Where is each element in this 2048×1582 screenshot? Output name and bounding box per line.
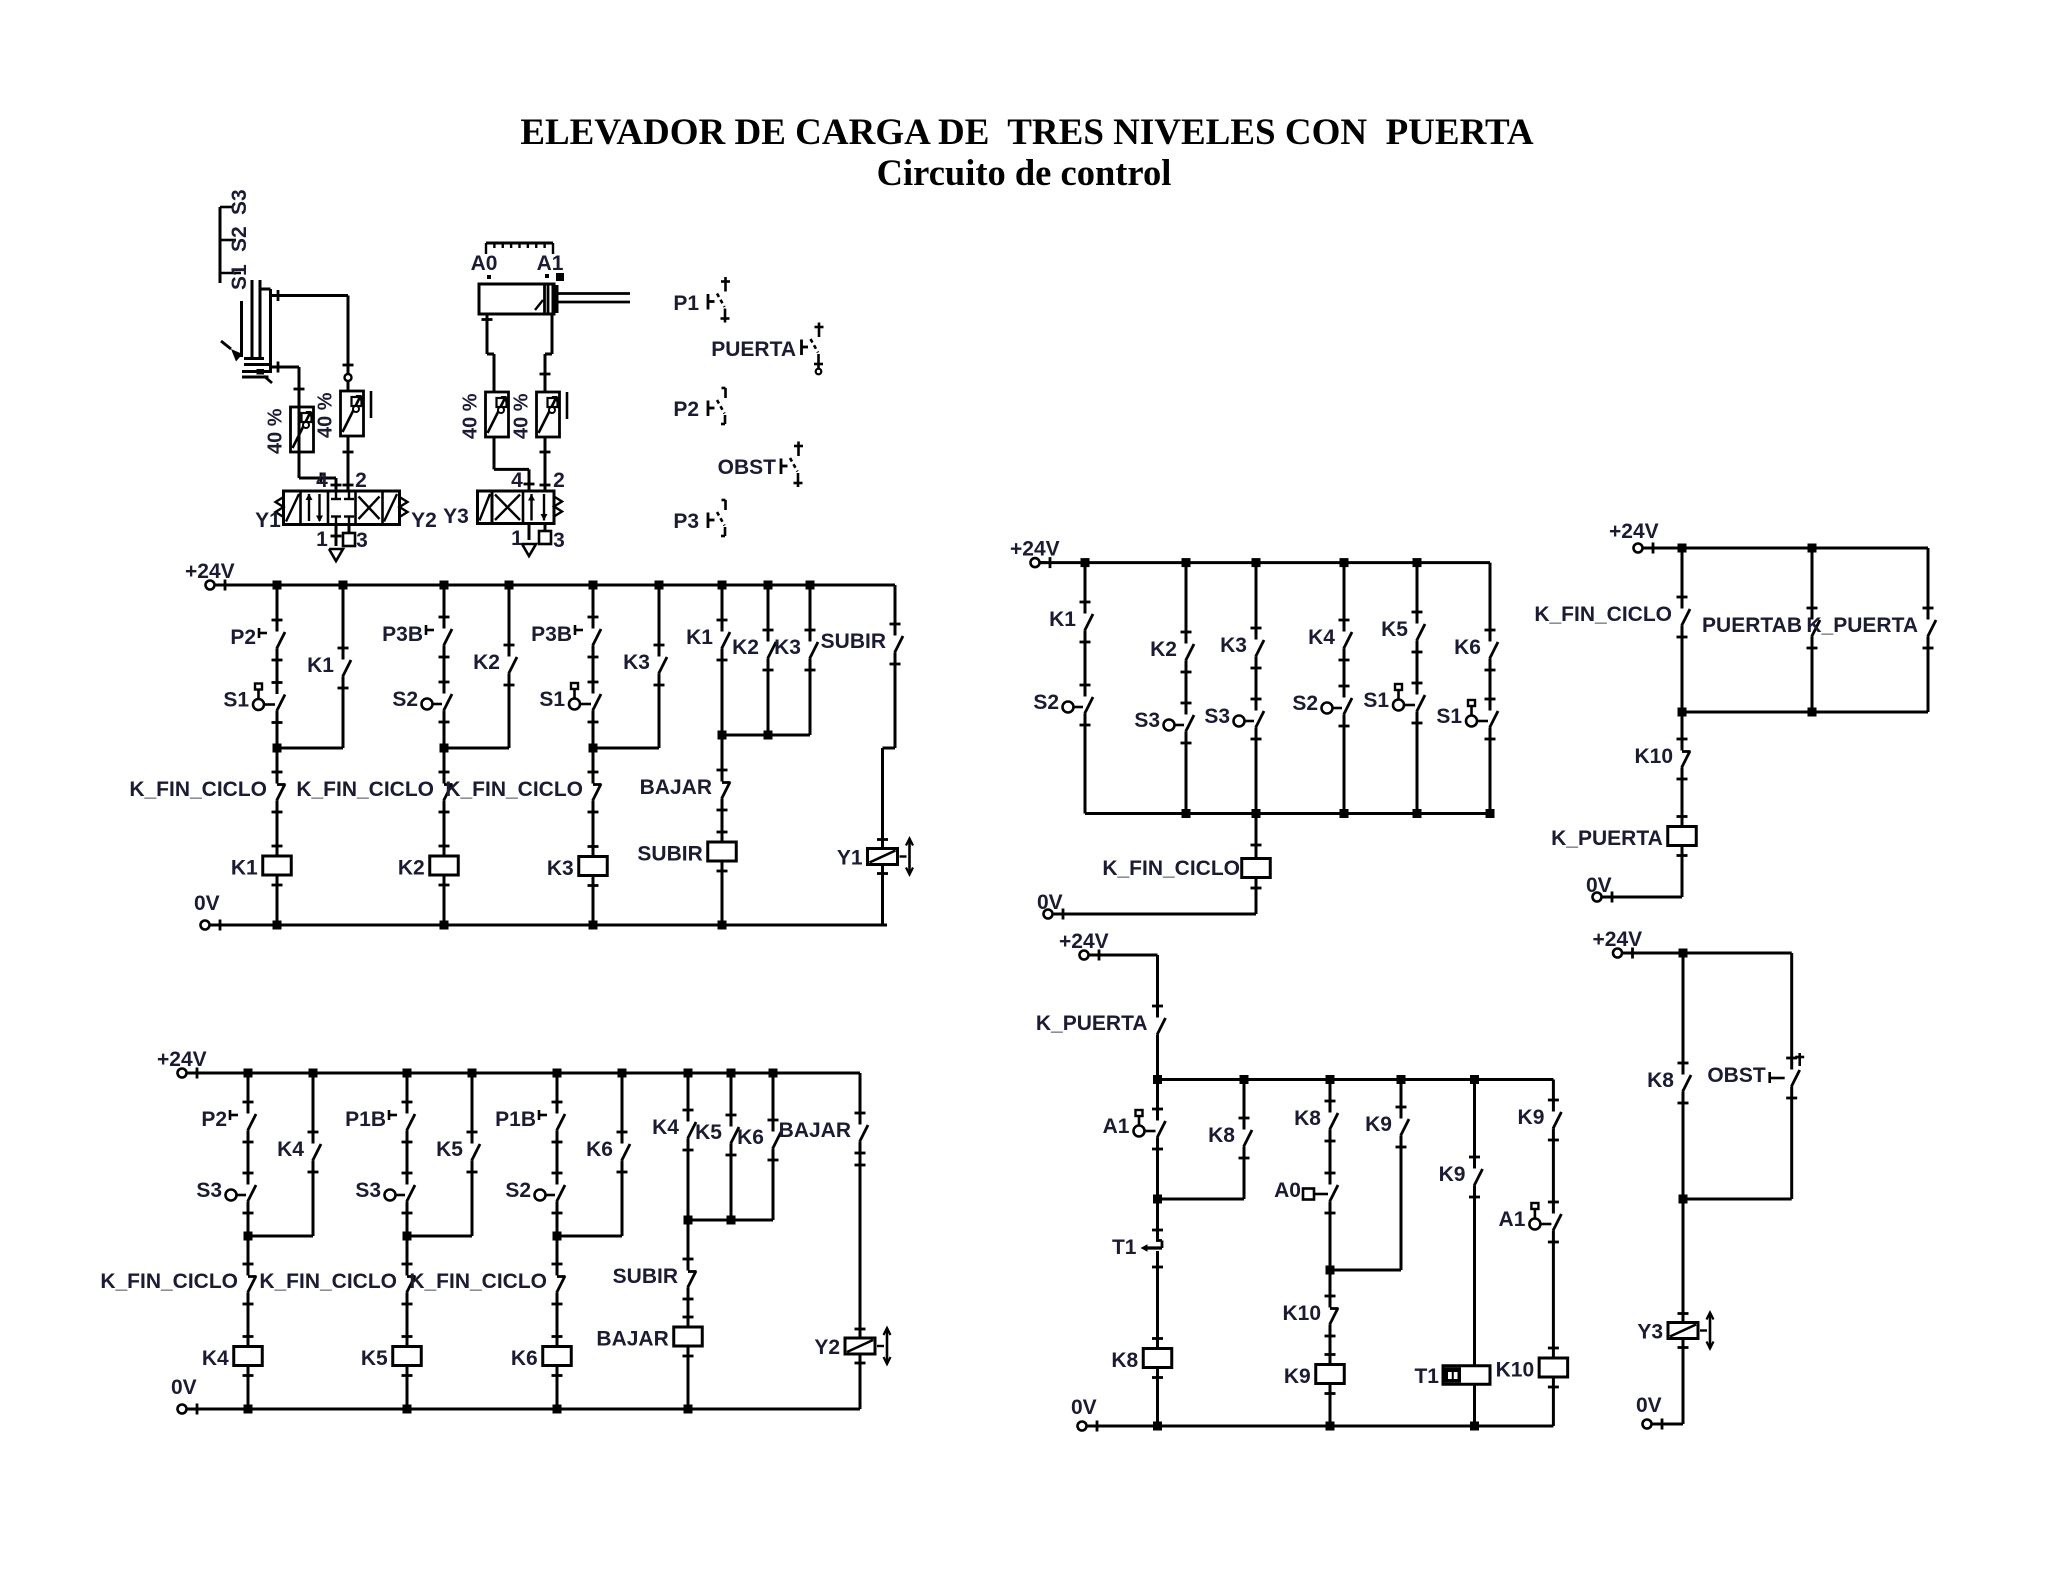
- branch wire (rung1): [247, 1073, 250, 1114]
- branch wire (l6 OBST): [1790, 953, 1793, 1070]
- svg-text:2: 2: [553, 469, 565, 492]
- branch wire (rung2 parallel K5): [471, 1073, 474, 1144]
- junction: [1470, 1075, 1479, 1084]
- junction: [1326, 1075, 1335, 1084]
- junction: [1153, 1422, 1162, 1431]
- svg-text:K_FIN_CICLO: K_FIN_CICLO: [1102, 857, 1240, 880]
- wire junction: [688, 1219, 773, 1222]
- svg-text:S1: S1: [228, 264, 251, 290]
- flow control valve 40% (Y3 port 4): [486, 392, 509, 437]
- contact K_FIN_CICLO: [1682, 609, 1690, 626]
- pipe cylinder A port 4 to valve Y3: [486, 314, 489, 354]
- branch wire (l5 K_PUERTA contact): [1156, 955, 1159, 1018]
- contact K2: [768, 642, 776, 659]
- svg-text:BAJAR: BAJAR: [640, 776, 712, 799]
- branch wire (l5 parallel K8): [1243, 1080, 1246, 1130]
- svg-text:K5: K5: [436, 1138, 463, 1161]
- svg-text:K6: K6: [586, 1138, 613, 1161]
- coil K8: [1152, 1337, 1163, 1340]
- svg-text:S2: S2: [1033, 691, 1059, 714]
- wire junction: [722, 734, 810, 737]
- svg-text:K_PUERTA: K_PUERTA: [1806, 614, 1918, 637]
- svg-text:40 %: 40 %: [460, 393, 482, 439]
- valve Y1 port 1 exhaust: [335, 525, 338, 547]
- contact S1: [1417, 695, 1425, 712]
- svg-text:T1: T1: [1414, 1365, 1439, 1388]
- branch wire (rung5 Y2): [859, 1073, 862, 1125]
- junction: [1678, 544, 1687, 553]
- valve Y3 port 3 silencer: [544, 524, 547, 532]
- coil K9: [1325, 1353, 1336, 1356]
- branch wire (l4 main): [1681, 548, 1684, 609]
- branch wire (l3 K1): [1084, 563, 1087, 614]
- junction: [1413, 809, 1422, 818]
- svg-text:40 %: 40 %: [315, 392, 337, 438]
- svg-text:K_PUERTA: K_PUERTA: [1036, 1012, 1148, 1035]
- junction: [806, 581, 815, 590]
- contact S1: [1490, 711, 1498, 728]
- coil K2: [439, 845, 450, 848]
- contact S2: [444, 694, 452, 711]
- svg-text:K8: K8: [1647, 1069, 1674, 1092]
- contact K_PUERTA: [1928, 620, 1936, 637]
- junction: [589, 581, 598, 590]
- svg-text:K9: K9: [1439, 1163, 1466, 1186]
- contact BAJAR: [860, 1125, 868, 1142]
- svg-text:K6: K6: [1454, 636, 1481, 659]
- svg-text:K1: K1: [307, 654, 334, 677]
- junction: [403, 1069, 412, 1078]
- branch wire (rung3 parallel K6): [621, 1073, 624, 1144]
- svg-text:K9: K9: [1365, 1113, 1392, 1136]
- branch wire (l5 rung K10): [1552, 1080, 1555, 1112]
- contact OBST: [1791, 1070, 1799, 1087]
- junction: [1252, 809, 1261, 818]
- contact K1: [343, 660, 351, 677]
- branch wire (rung4 parallel K3): [809, 585, 812, 642]
- svg-text:S1: S1: [539, 688, 565, 711]
- contact K8: [1330, 1113, 1338, 1130]
- valve Y3 port 1 exhaust: [528, 524, 531, 541]
- junction: [273, 581, 282, 590]
- svg-text:40 %: 40 %: [265, 408, 287, 454]
- svg-text:0V: 0V: [194, 892, 220, 915]
- junction: [309, 1069, 318, 1078]
- svg-text:OBST: OBST: [1707, 1064, 1766, 1087]
- contact K3: [810, 642, 818, 659]
- svg-text:PUERTAB: PUERTAB: [1702, 614, 1802, 637]
- svg-text:4: 4: [316, 469, 328, 492]
- contact K8: [1244, 1130, 1252, 1147]
- svg-text:S1: S1: [223, 689, 249, 712]
- wire to Y1 port 2: [347, 436, 350, 491]
- svg-text:K2: K2: [473, 651, 500, 674]
- branch wire (l5 rung K8): [1156, 1080, 1159, 1121]
- contact SUBIR: [688, 1271, 696, 1288]
- svg-text:S2: S2: [392, 688, 418, 711]
- svg-text:P2: P2: [673, 398, 699, 421]
- coil K4: [243, 1335, 254, 1338]
- branch wire (l5 parallel K9): [1400, 1080, 1403, 1119]
- svg-text:S3: S3: [196, 1179, 222, 1202]
- coil K1: [272, 845, 283, 848]
- horizontal cylinder A: [479, 284, 554, 314]
- svg-text:A0: A0: [471, 252, 498, 275]
- svg-text:K10: K10: [1634, 745, 1673, 768]
- branch wire (rung1 parallel K4): [312, 1073, 315, 1144]
- junction: [244, 1405, 253, 1414]
- solenoid coil Y3: [1678, 1312, 1689, 1315]
- svg-text:K_PUERTA: K_PUERTA: [1551, 827, 1663, 850]
- svg-text:S2: S2: [228, 226, 251, 252]
- svg-text:A1: A1: [1499, 1208, 1526, 1231]
- svg-text:0V: 0V: [171, 1376, 197, 1399]
- contact K1: [722, 632, 730, 649]
- branch wire (l3 K6): [1489, 563, 1492, 642]
- svg-text:K5: K5: [361, 1347, 388, 1370]
- svg-text:K4: K4: [202, 1347, 229, 1370]
- valve Y1 port 3 silencer: [348, 525, 351, 534]
- branch wire (rung4 parallel K6): [772, 1073, 775, 1132]
- branch wire (l5 rung T1): [1473, 1080, 1476, 1169]
- svg-text:K10: K10: [1282, 1302, 1321, 1325]
- svg-text:A1: A1: [537, 252, 564, 275]
- junction: [718, 921, 727, 930]
- svg-text:K8: K8: [1294, 1107, 1321, 1130]
- coil K5: [402, 1335, 413, 1338]
- branch wire (l3 K2): [1185, 563, 1188, 644]
- contact K4: [688, 1122, 696, 1139]
- junction: [1679, 949, 1688, 958]
- junction: [1182, 809, 1191, 818]
- svg-text:K3: K3: [774, 636, 801, 659]
- svg-text:Y2: Y2: [814, 1336, 840, 1359]
- bus wire: [1158, 1078, 1554, 1081]
- contact K10: [1330, 1308, 1338, 1325]
- contact K6: [622, 1144, 630, 1161]
- svg-text:P3: P3: [673, 510, 699, 533]
- svg-text:SUBIR: SUBIR: [613, 1265, 678, 1288]
- contact K6: [1490, 642, 1498, 659]
- svg-text:3: 3: [356, 529, 368, 552]
- flow control valve 40% (Y1 port 2): [341, 391, 364, 436]
- junction: [273, 921, 282, 930]
- svg-text:0V: 0V: [1071, 1396, 1097, 1419]
- contact K5: [1417, 624, 1425, 641]
- pipe cylinder A port 2 to valve Y3: [551, 314, 554, 354]
- contact A1: [1553, 1214, 1561, 1231]
- bus wire: [1085, 812, 1490, 815]
- svg-text:1: 1: [316, 528, 328, 551]
- svg-text:K8: K8: [1208, 1124, 1235, 1147]
- svg-text:K1: K1: [686, 626, 713, 649]
- branch wire (l5 rung K9): [1329, 1080, 1332, 1113]
- branch wire (l4 K_PUERTA contact): [1927, 548, 1930, 620]
- contact K4: [1344, 632, 1352, 649]
- junction: [339, 581, 348, 590]
- svg-text:K10: K10: [1496, 1359, 1535, 1382]
- svg-text:K9: K9: [1518, 1106, 1545, 1129]
- contact S1: [593, 694, 601, 711]
- branch wire (rung2 parallel K2): [508, 585, 511, 657]
- junction: [553, 1069, 562, 1078]
- svg-text:S3: S3: [228, 189, 251, 215]
- junction: [1470, 1422, 1479, 1431]
- contact P2: [248, 1114, 256, 1131]
- svg-text:ELEVADOR DE CARGA DE TRES NIV: ELEVADOR DE CARGA DE TRES NIVELES CON PU…: [520, 112, 1534, 153]
- junction: [1153, 1075, 1162, 1084]
- branch wire (rung2): [406, 1073, 409, 1114]
- svg-text:S3: S3: [1134, 709, 1160, 732]
- junction: [718, 581, 727, 590]
- svg-text:S2: S2: [1292, 692, 1318, 715]
- svg-text:Circuito de control: Circuito de control: [877, 152, 1172, 193]
- contact K10: [1682, 751, 1690, 768]
- svg-text:K4: K4: [277, 1138, 304, 1161]
- branch wire (rung5 Y1): [894, 585, 897, 636]
- timer contact T1: [1152, 1229, 1163, 1232]
- svg-text:K_FIN_CICLO: K_FIN_CICLO: [259, 1270, 397, 1293]
- svg-text:A0: A0: [1274, 1179, 1301, 1202]
- junction: [1240, 1075, 1249, 1084]
- svg-text:K_FIN_CICLO: K_FIN_CICLO: [445, 778, 583, 801]
- coil K3: [588, 845, 599, 848]
- contact P1B: [407, 1114, 415, 1131]
- svg-text:P1B: P1B: [345, 1108, 386, 1131]
- junction: [1413, 558, 1422, 567]
- position scale A0 A1: [486, 242, 553, 245]
- junction: [468, 1069, 477, 1078]
- coil K_PUERTA: [1677, 815, 1688, 818]
- coil K_FIN_CICLO: [1242, 859, 1271, 878]
- svg-text:K3: K3: [1220, 634, 1247, 657]
- svg-text:BAJAR: BAJAR: [779, 1119, 851, 1142]
- svg-text:K_FIN_CICLO: K_FIN_CICLO: [1534, 603, 1672, 626]
- contact K8: [1683, 1075, 1691, 1092]
- contact P1B: [557, 1114, 565, 1131]
- contact S2: [1085, 697, 1093, 714]
- vertical lift cylinder: [251, 280, 254, 358]
- contact PUERTAB: [1812, 620, 1820, 637]
- svg-text:S3: S3: [1204, 705, 1230, 728]
- wire to Y3 port 4: [493, 437, 496, 469]
- contact SUBIR: [895, 636, 903, 653]
- svg-text:P1: P1: [673, 292, 699, 315]
- junction: [1397, 1075, 1406, 1084]
- svg-text:K5: K5: [1381, 618, 1408, 641]
- contact K4: [313, 1144, 321, 1161]
- svg-text:K9: K9: [1284, 1365, 1311, 1388]
- directional valve Y1/Y2: [284, 491, 400, 525]
- svg-text:2: 2: [355, 469, 367, 492]
- contact K3: [1256, 640, 1264, 657]
- junction: [1182, 558, 1191, 567]
- svg-text:K_FIN_CICLO: K_FIN_CICLO: [129, 778, 267, 801]
- contact S2: [557, 1185, 565, 1202]
- wire to Y1 port 4: [298, 452, 301, 478]
- timer coil T1: [1443, 1366, 1490, 1385]
- contact K9: [1401, 1119, 1409, 1136]
- branch wire (rung3 parallel K3): [658, 585, 661, 657]
- svg-text:A1: A1: [1103, 1115, 1130, 1138]
- solenoid coil Y2: [855, 1328, 866, 1331]
- svg-text:T1: T1: [1112, 1236, 1137, 1259]
- junction: [727, 1069, 736, 1078]
- svg-text:K4: K4: [1308, 626, 1335, 649]
- svg-text:P2: P2: [201, 1108, 227, 1131]
- svg-text:K2: K2: [1150, 638, 1177, 661]
- svg-text:0V: 0V: [1636, 1394, 1662, 1417]
- contact S3: [407, 1185, 415, 1202]
- junction: [684, 1069, 693, 1078]
- svg-text:K_FIN_CICLO: K_FIN_CICLO: [100, 1270, 238, 1293]
- svg-text:PUERTA: PUERTA: [711, 338, 796, 361]
- svg-text:K3: K3: [547, 857, 574, 880]
- contact K1: [1085, 614, 1093, 631]
- solenoid coil Y1: [877, 838, 888, 841]
- svg-text:K1: K1: [1049, 608, 1076, 631]
- contact S3: [248, 1185, 256, 1202]
- coil branch K_FIN_CICLO: [1255, 814, 1258, 859]
- junction: [589, 921, 598, 930]
- contact S3: [1186, 715, 1194, 732]
- svg-text:S1: S1: [1436, 705, 1462, 728]
- contact K2: [1186, 644, 1194, 661]
- svg-text:Y2: Y2: [411, 509, 437, 532]
- contact K_FIN_CICLO: [248, 1276, 256, 1293]
- junction: [440, 921, 449, 930]
- svg-text:P3B: P3B: [531, 623, 572, 646]
- svg-text:OBST: OBST: [718, 456, 777, 479]
- coil SUBIR: [717, 831, 728, 834]
- junction: [1252, 558, 1261, 567]
- junction: [553, 1405, 562, 1414]
- branch wire (l6 main): [1682, 953, 1685, 1075]
- position scale S1 S2 S3: [219, 207, 222, 283]
- contact K5: [472, 1144, 480, 1161]
- contact K_FIN_CICLO: [557, 1276, 565, 1293]
- junction: [1340, 809, 1349, 818]
- contact K6: [773, 1132, 781, 1149]
- branch wire (rung3): [556, 1073, 559, 1114]
- contact BAJAR: [722, 782, 730, 799]
- branch wire (l3 K5): [1416, 563, 1419, 624]
- coil K6: [552, 1335, 563, 1338]
- junction: [655, 581, 664, 590]
- svg-text:K3: K3: [623, 651, 650, 674]
- svg-text:K_FIN_CICLO: K_FIN_CICLO: [296, 778, 434, 801]
- junction: [440, 581, 449, 590]
- svg-text:K4: K4: [652, 1116, 679, 1139]
- svg-text:K6: K6: [511, 1347, 538, 1370]
- contact K_PUERTA: [1157, 1018, 1165, 1035]
- contact K_FIN_CICLO: [444, 784, 452, 801]
- contact K_FIN_CICLO: [407, 1276, 415, 1293]
- flow control valve 40% (Y1 port 4): [291, 407, 314, 452]
- coil BAJAR: [683, 1316, 694, 1319]
- svg-text:+24V: +24V: [1609, 520, 1659, 543]
- svg-text:40 %: 40 %: [511, 393, 533, 439]
- branch wire (rung2): [443, 585, 446, 629]
- coil K10: [1548, 1347, 1559, 1350]
- branch wire (rung4 BAJAR): [687, 1073, 690, 1122]
- svg-text:Y1: Y1: [837, 847, 863, 870]
- contact K9: [1474, 1169, 1482, 1186]
- svg-text:P2: P2: [230, 626, 256, 649]
- junction: [764, 581, 773, 590]
- bus wire: [1682, 711, 1928, 714]
- svg-text:4: 4: [511, 469, 523, 492]
- contact K_FIN_CICLO: [277, 784, 285, 801]
- pipe cylinder port 2 to valve Y1: [271, 294, 349, 297]
- svg-text:SUBIR: SUBIR: [637, 843, 702, 866]
- branch wire (rung3): [592, 585, 595, 629]
- contact K3: [659, 657, 667, 674]
- svg-text:Y3: Y3: [443, 505, 469, 528]
- junction: [505, 581, 514, 590]
- svg-text:S2: S2: [505, 1179, 531, 1202]
- svg-text:K5: K5: [695, 1121, 722, 1144]
- svg-text:S3: S3: [355, 1179, 381, 1202]
- contact P3B: [444, 629, 452, 646]
- svg-text:SUBIR: SUBIR: [821, 630, 886, 653]
- junction: [684, 1405, 693, 1414]
- contact K_FIN_CICLO: [593, 784, 601, 801]
- branch wire (l4 PUERTAB): [1811, 548, 1814, 620]
- junction: [1326, 1422, 1335, 1431]
- svg-text:K_FIN_CICLO: K_FIN_CICLO: [409, 1270, 547, 1293]
- branch wire (l3 K3): [1255, 563, 1258, 640]
- directional valve Y3: [492, 491, 554, 524]
- svg-text:S1: S1: [1363, 689, 1389, 712]
- svg-text:P3B: P3B: [382, 623, 423, 646]
- branch wire (rung4 SUBIR): [721, 585, 724, 632]
- branch wire (l3 K4): [1343, 563, 1346, 632]
- junction: [244, 1069, 253, 1078]
- svg-text:Y3: Y3: [1637, 1321, 1663, 1344]
- contact K5: [731, 1127, 739, 1144]
- svg-text:K6: K6: [737, 1126, 764, 1149]
- junction: [1340, 558, 1349, 567]
- junction: [618, 1069, 627, 1078]
- branch wire (rung1): [276, 585, 279, 632]
- branch wire (rung1 parallel K1): [342, 585, 345, 660]
- svg-text:Y1: Y1: [255, 509, 281, 532]
- wire to Y3 port 2: [544, 437, 547, 491]
- junction: [1486, 809, 1495, 818]
- contact K2: [509, 657, 517, 674]
- contact P2: [277, 632, 285, 649]
- contact A1: [1157, 1121, 1165, 1138]
- svg-text:K2: K2: [732, 636, 759, 659]
- junction: [1081, 558, 1090, 567]
- contact A0: [1330, 1185, 1338, 1202]
- contact P3B: [593, 629, 601, 646]
- pipe cylinder port 1 to valve Y1: [271, 366, 300, 369]
- svg-text:K2: K2: [398, 857, 425, 880]
- contact S2: [1344, 698, 1352, 715]
- svg-text:BAJAR: BAJAR: [596, 1328, 668, 1351]
- svg-text:1: 1: [511, 527, 523, 550]
- contact K9: [1553, 1112, 1561, 1129]
- junction: [769, 1069, 778, 1078]
- flow control valve 40% (Y3 port 2): [537, 392, 560, 437]
- contact S3: [1256, 711, 1264, 728]
- branch wire (rung4 parallel K2): [767, 585, 770, 642]
- svg-text:P1B: P1B: [495, 1108, 536, 1131]
- svg-text:K1: K1: [231, 857, 258, 880]
- contact S1: [277, 695, 285, 712]
